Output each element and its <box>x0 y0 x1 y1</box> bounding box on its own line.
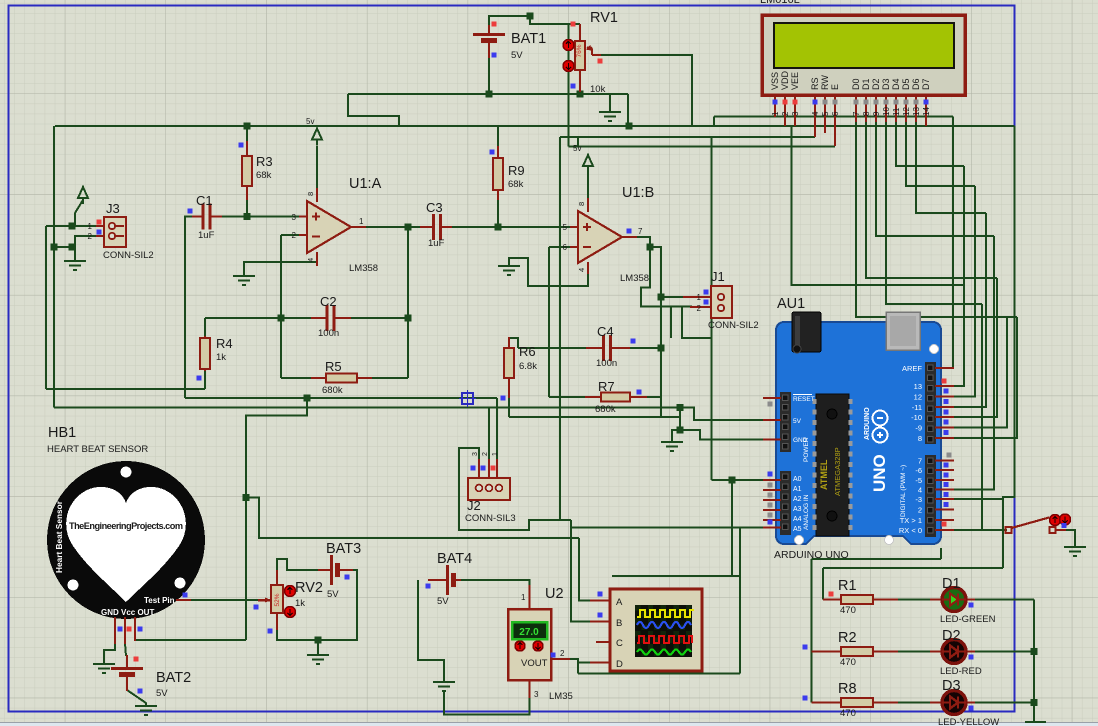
wire U1A out row <box>352 226 420 228</box>
svg-text:5v: 5v <box>573 144 581 153</box>
wire LCD d2 jog <box>876 120 994 236</box>
svg-text:R3: R3 <box>256 154 273 169</box>
wire R2 to D2 <box>897 651 942 653</box>
LCD pin 8 lead <box>865 95 867 122</box>
arduino analog stub A2 <box>763 499 781 501</box>
node x661 C4 <box>658 345 665 352</box>
resistor R9 top lead <box>497 146 499 160</box>
resistor R2 left lead <box>812 651 842 653</box>
svg-text:BAT4: BAT4 <box>437 551 472 567</box>
svg-text:C4: C4 <box>597 324 614 339</box>
arduino right stub dTX <box>935 519 954 521</box>
svg-text:5: 5 <box>563 223 568 232</box>
LCD pin 7 lead <box>855 95 857 122</box>
svg-text:2: 2 <box>88 232 93 241</box>
node x661 J1pin1 <box>658 294 665 301</box>
wire x408 down <box>407 227 409 378</box>
svg-text:1uF: 1uF <box>198 230 215 241</box>
marker R1 red <box>829 592 834 597</box>
marker dpin2 blue 3 <box>944 492 949 497</box>
svg-text:R8: R8 <box>838 681 857 697</box>
node y430 gnd <box>677 427 684 434</box>
svg-text:3: 3 <box>472 452 479 456</box>
wire U1A pin2 row <box>281 234 300 236</box>
pot RV2 adjust knobs <box>285 586 296 618</box>
svg-text:1: 1 <box>359 217 364 226</box>
marker A3 gray <box>768 503 773 508</box>
wire under-board y559 <box>812 558 942 560</box>
marker y398 blue <box>501 396 506 401</box>
LED D1 green <box>942 588 966 612</box>
LED D3 yellow <box>942 691 966 715</box>
ground heart GND <box>93 664 115 673</box>
svg-text:AU1: AU1 <box>777 296 805 312</box>
svg-text:Test Pin: Test Pin <box>144 596 175 605</box>
LCD pin 2 marker <box>783 100 788 105</box>
svg-text:D2: D2 <box>942 628 961 644</box>
wire R4 bottom lead wire <box>204 370 206 389</box>
wire J1pin2 to A0 vertical <box>711 137 713 480</box>
svg-text:E: E <box>830 84 840 90</box>
battery BAT2 <box>111 655 143 691</box>
LCD pin 1 lead <box>774 95 776 117</box>
resistor R1 right lead <box>873 599 898 601</box>
arduino right stub -11 <box>935 406 954 408</box>
wire LCD p11 jog <box>896 120 964 166</box>
marker scope B blue <box>598 613 603 618</box>
wire node to RV1 top <box>530 16 580 24</box>
connector J1 body <box>711 286 732 318</box>
LCD pin 4 lead <box>814 95 816 137</box>
LCD pin 5 marker <box>823 100 828 105</box>
resistor R7 body <box>601 393 630 402</box>
wire BAT1+ to node <box>489 16 530 25</box>
arduino right stub -9 <box>935 427 954 429</box>
wire D2 right <box>974 651 1034 653</box>
capacitor C2 right lead <box>334 317 351 319</box>
svg-text:C3: C3 <box>426 200 443 215</box>
wire C4 right link <box>630 347 661 349</box>
pot RV1 body <box>575 41 601 70</box>
ground near BAT4 <box>433 682 455 691</box>
scope pin A lead <box>590 600 611 602</box>
marker J3 pin2 blue <box>97 230 102 235</box>
node OUT riser junction <box>243 494 250 501</box>
svg-text:BAT2: BAT2 <box>156 670 191 686</box>
LCD pin 3 lead <box>794 95 796 126</box>
wire switch to gnd <box>1066 530 1075 547</box>
svg-text:12: 12 <box>902 107 911 116</box>
svg-text:LM35: LM35 <box>549 691 573 702</box>
wire C3 right to pin5 <box>445 226 449 228</box>
wire GND rail y94 <box>348 93 628 95</box>
node D3 junction <box>1031 699 1038 706</box>
wire R6 bottom to y417 <box>508 398 510 417</box>
wire bundle vRX <box>981 304 983 530</box>
wire R2R8 feed x811 <box>811 559 813 703</box>
wire D1 right <box>974 599 1034 601</box>
LM35 pin3 lead <box>529 680 531 698</box>
resistor R3 top lead <box>246 141 248 156</box>
marker BAT4 blue <box>426 584 431 589</box>
svg-text:7: 7 <box>918 457 922 466</box>
node U1A out junction <box>405 224 412 231</box>
LCD pin 4 marker <box>813 100 818 105</box>
svg-text:RV1: RV1 <box>590 10 618 26</box>
svg-text:D5: D5 <box>901 78 911 90</box>
svg-text:R6: R6 <box>519 344 536 359</box>
resistor R1 body <box>841 595 873 604</box>
svg-text:A0: A0 <box>793 476 802 483</box>
wire gnd stem mid <box>672 430 680 442</box>
marker dpin2 blue 1 <box>944 473 949 478</box>
marker C1 blue <box>188 209 193 214</box>
svg-text:LED-YELLOW: LED-YELLOW <box>938 717 999 726</box>
wire out to pin2 path <box>641 247 692 307</box>
pot RV2 top lead <box>276 570 278 586</box>
wire R7 left lead wire <box>549 396 586 398</box>
arduino usb <box>886 312 920 350</box>
marker pin7 gray <box>947 453 952 458</box>
heart sensor GND pin lead <box>114 617 116 644</box>
marker U1B out blue <box>627 229 632 234</box>
marker RV2 bottom blue <box>268 629 273 634</box>
svg-text:VEE: VEE <box>790 72 800 90</box>
capacitor C1 left lead <box>192 216 202 218</box>
diode D2 right lead <box>966 651 975 653</box>
heart beat sensor HB1 board <box>47 461 205 619</box>
wire out right drop x661 <box>650 247 661 417</box>
wire C4 jog to R6 <box>509 338 518 348</box>
node BAT3 gnd junction <box>315 637 322 644</box>
wire RV1 wiper run <box>600 55 692 126</box>
svg-text:1k: 1k <box>216 352 226 363</box>
wire y673 LM35 to riser <box>578 673 740 675</box>
heart sensor test pin lead <box>176 599 191 601</box>
ground BAT3 <box>307 655 329 664</box>
svg-text:2: 2 <box>292 231 297 240</box>
wire RS line y137 <box>560 136 815 138</box>
power 5V arrow near J3 <box>78 187 88 204</box>
LED D2 red <box>942 640 966 664</box>
wire scope D stub wire <box>578 662 590 664</box>
resistor R8 left lead <box>812 702 842 704</box>
svg-text:6.8k: 6.8k <box>519 361 537 372</box>
marker J2 red <box>491 466 496 471</box>
connector J2 body <box>468 478 510 500</box>
LCD pin 11 lead <box>895 95 897 122</box>
node gnd row junction 2 <box>69 244 76 251</box>
LM35 pin2 lead <box>551 658 570 660</box>
arduino left stub 5V <box>763 419 781 421</box>
svg-text:RESET: RESET <box>793 396 815 403</box>
svg-text:5V: 5V <box>437 596 449 607</box>
diode D1 right lead <box>966 599 975 601</box>
wire heart GND pin <box>104 643 115 664</box>
arduino analog stub A3 <box>763 509 781 511</box>
wire AREF drop <box>947 117 953 369</box>
wire BAT4- loop <box>418 580 444 682</box>
wire D7 long drop <box>1003 126 1015 568</box>
svg-text:LM016L: LM016L <box>760 0 800 6</box>
wire J2 pin2 drop <box>488 408 490 461</box>
connector J3 pin1 lead <box>96 225 106 227</box>
connector J2 pin1 lead <box>496 459 498 482</box>
wire bundle v11 <box>954 213 986 407</box>
LCD pin 8 marker <box>864 100 869 105</box>
marker RESET gray <box>768 402 773 407</box>
wire y576 link <box>612 575 740 577</box>
marker R8 blue <box>803 696 808 701</box>
connector J2 pin2 lead <box>488 459 490 482</box>
power 5V arrow U1B <box>583 155 593 172</box>
arduino analog stub A1 <box>763 489 781 491</box>
wire bottom stub <box>1025 721 1046 723</box>
marker A4 gray <box>768 513 773 518</box>
marker R6 blue <box>501 396 506 401</box>
arduino analog header <box>780 471 791 535</box>
wire RV1 aux vertical <box>568 24 570 147</box>
wire C1 output row y216 <box>222 216 299 218</box>
svg-text:C2: C2 <box>320 294 337 309</box>
arduino right stub dRX <box>935 529 954 531</box>
wire R5 right lead wire <box>371 377 408 379</box>
wire bundle v8 <box>954 317 1017 438</box>
wire heart OUT row y640 <box>135 639 246 641</box>
ground mid right <box>661 442 683 451</box>
diode D1 left lead <box>930 599 942 601</box>
svg-text:A4: A4 <box>793 516 802 523</box>
wire D3 right <box>974 702 1034 704</box>
svg-text:8: 8 <box>862 111 871 116</box>
wire rail94 staircase to rail126 <box>348 94 399 126</box>
wire A0 drop x732 <box>731 480 733 576</box>
svg-text:TheEngineeringProjects.com: TheEngineeringProjects.com <box>69 521 183 531</box>
svg-text:HEART BEAT SENSOR: HEART BEAT SENSOR <box>47 444 148 455</box>
svg-text:76%: 76% <box>576 44 583 57</box>
svg-text:470: 470 <box>840 708 856 719</box>
arduino board <box>47 312 1071 726</box>
oscilloscope body <box>610 589 702 671</box>
svg-text:-3: -3 <box>915 495 922 504</box>
arduino right stub 12 <box>935 396 954 398</box>
svg-text:J2: J2 <box>467 498 481 513</box>
wire R4 top lead wire <box>204 318 206 337</box>
marker dpin blue 1 <box>944 399 949 404</box>
svg-text:A1: A1 <box>793 486 802 493</box>
battery BAT1 <box>473 25 505 58</box>
diode D3 right lead <box>966 702 975 704</box>
marker C4 blue <box>631 339 636 344</box>
wire R1 feed <box>822 568 824 600</box>
svg-text:10k: 10k <box>590 84 606 95</box>
arduino left stub RESET <box>763 397 781 399</box>
LCD pin 14 marker <box>924 100 929 105</box>
svg-text:D7: D7 <box>921 78 931 90</box>
scope pin C lead <box>596 641 611 643</box>
wire long line y407 <box>54 407 680 409</box>
svg-text:1: 1 <box>492 452 499 456</box>
arduino power header <box>780 392 791 452</box>
connector J3 body <box>104 217 126 247</box>
svg-text:6: 6 <box>563 243 568 252</box>
arduino hole bottom-mid <box>885 536 894 545</box>
marker BAT2 blue <box>138 689 143 694</box>
scope waveform D green <box>637 650 691 655</box>
LCD pin 1 marker <box>773 100 778 105</box>
wire pin2 feedback x281 <box>280 235 282 318</box>
svg-text:BAT3: BAT3 <box>326 541 361 557</box>
capacitor C2 left lead <box>311 317 327 319</box>
wire pin3 jog <box>954 498 1003 500</box>
svg-text:27.0: 27.0 <box>519 627 539 638</box>
svg-text:13: 13 <box>914 382 922 391</box>
marker dpin blue 3 <box>944 420 949 425</box>
arduino left stub GND <box>763 439 781 441</box>
arduino right stub d7 <box>935 460 954 462</box>
node R9 bottom junction <box>495 224 502 231</box>
wire y318 left <box>205 317 311 319</box>
svg-text:D3: D3 <box>881 78 891 90</box>
marker TX red <box>942 522 947 527</box>
svg-text:GND Vcc OUT: GND Vcc OUT <box>101 608 154 617</box>
svg-text:470: 470 <box>840 657 856 668</box>
wire RV2 top jog <box>277 559 318 584</box>
LCD pin 13 lead <box>915 95 917 122</box>
svg-text:RX < 0: RX < 0 <box>899 526 922 535</box>
svg-text:CONN-SIL2: CONN-SIL2 <box>103 250 154 261</box>
marker BAT1 blue <box>492 53 497 58</box>
switch toggle knobs <box>1050 514 1071 526</box>
wire BAT1- down <box>488 57 490 94</box>
node C2 right junction <box>405 315 412 322</box>
switch SW1 <box>1006 518 1067 534</box>
wire LCD p12 jog <box>906 120 975 186</box>
wire long line y398 <box>185 397 497 399</box>
marker heart blue1 <box>118 627 123 632</box>
svg-text:D4: D4 <box>891 78 901 90</box>
node gnd row junction <box>51 244 58 251</box>
marker A0 blue <box>768 472 773 477</box>
wire C1 left down x185 <box>185 217 192 399</box>
capacitor C1 right lead <box>211 216 222 218</box>
wire U1A pwr stem <box>316 146 318 190</box>
wire R1 to D1 <box>897 599 942 601</box>
resistor R4 body <box>200 338 210 369</box>
wire scope B riser <box>571 520 590 622</box>
wire U1B pin6 row <box>549 246 571 248</box>
wire LCD d0 jog <box>856 120 1017 317</box>
wire J2 pin1 drop <box>496 398 498 460</box>
capacitor C4 right lead <box>611 347 630 349</box>
arduino digital header upper <box>925 362 936 444</box>
scope waveform C red <box>637 636 692 643</box>
svg-text:HB1: HB1 <box>48 425 76 441</box>
svg-text:5V: 5V <box>327 589 339 600</box>
wire rail94 drop to rail126 <box>627 94 629 126</box>
wire y568 led row <box>823 567 1003 569</box>
marker R4 blue <box>197 376 202 381</box>
resistor R5 left lead <box>311 377 326 379</box>
svg-text:680k: 680k <box>595 404 616 415</box>
wire J3 pin1 row <box>46 225 96 227</box>
wire BAT3 right loop <box>277 570 357 640</box>
sensor U2 LM35 body <box>508 609 551 680</box>
LCD pin 2 lead <box>784 95 786 126</box>
svg-text:5V: 5V <box>793 418 802 425</box>
capacitor C4 <box>604 335 611 361</box>
LCD pin 10 lead <box>885 95 887 122</box>
svg-text:13: 13 <box>912 107 921 116</box>
wire E drop x791 <box>792 127 965 285</box>
connector J1 pin2 lead <box>690 306 712 308</box>
svg-text:4: 4 <box>306 258 315 262</box>
wire LCD p13 jog <box>916 120 986 213</box>
battery BAT4 <box>448 565 462 595</box>
svg-text:2: 2 <box>781 111 790 116</box>
resistor R9 body <box>493 158 503 190</box>
svg-text:12: 12 <box>914 393 922 402</box>
capacitor C1 <box>203 204 210 230</box>
resistor R4 top lead <box>204 336 206 341</box>
svg-text:3: 3 <box>292 213 297 222</box>
wire C4 left link <box>518 347 586 349</box>
marker R2 blue <box>803 645 808 650</box>
op-amp U1:B <box>570 198 637 274</box>
resistor R2 right lead <box>873 651 898 653</box>
wire bundle v12 <box>954 186 975 397</box>
ground near RV1 <box>599 112 621 121</box>
heart sensor Vcc pin lead <box>124 617 126 644</box>
capacitor C2 <box>327 305 334 331</box>
battery BAT3 left lead <box>318 569 330 571</box>
marker LM35 pin2 blue <box>551 653 556 658</box>
svg-text:2: 2 <box>482 452 489 456</box>
marker BAT3 blue <box>345 575 350 580</box>
svg-text:8: 8 <box>918 434 922 443</box>
resistor R5 body <box>326 374 357 383</box>
svg-text:68k: 68k <box>256 170 272 181</box>
wire A0 row <box>712 479 764 481</box>
arduino right stub d-3 <box>935 498 954 500</box>
diode D2 left lead <box>930 651 942 653</box>
LCD pin 12 marker <box>904 100 909 105</box>
svg-text:1: 1 <box>771 111 780 116</box>
arduino right stub -10 <box>935 416 954 418</box>
wire R8 to D3 <box>897 702 942 704</box>
svg-text:UNO: UNO <box>870 454 889 492</box>
LCD pin 6 marker <box>833 100 838 105</box>
marker dpin blue 2 <box>944 410 949 415</box>
LCD pin 10 marker <box>884 100 889 105</box>
wire line y146 E <box>569 146 836 148</box>
marker R3 blue <box>239 143 244 148</box>
svg-text:U1:A: U1:A <box>349 176 382 192</box>
arduino hole bottom-left <box>795 536 804 545</box>
svg-text:11: 11 <box>892 107 901 116</box>
node y407 end <box>677 404 684 411</box>
svg-text:BAT1: BAT1 <box>511 31 546 47</box>
svg-text:8: 8 <box>306 192 315 196</box>
svg-text:RS: RS <box>810 77 820 90</box>
LCD pin 6 lead <box>834 95 836 146</box>
svg-text:CONN-SIL3: CONN-SIL3 <box>465 513 516 524</box>
wire BAT3 gnd stem <box>317 640 319 655</box>
origin marker <box>459 390 476 407</box>
marker testpin blue <box>183 593 188 598</box>
svg-text:D6: D6 <box>911 78 921 90</box>
node C1-R3 junction <box>244 213 251 220</box>
